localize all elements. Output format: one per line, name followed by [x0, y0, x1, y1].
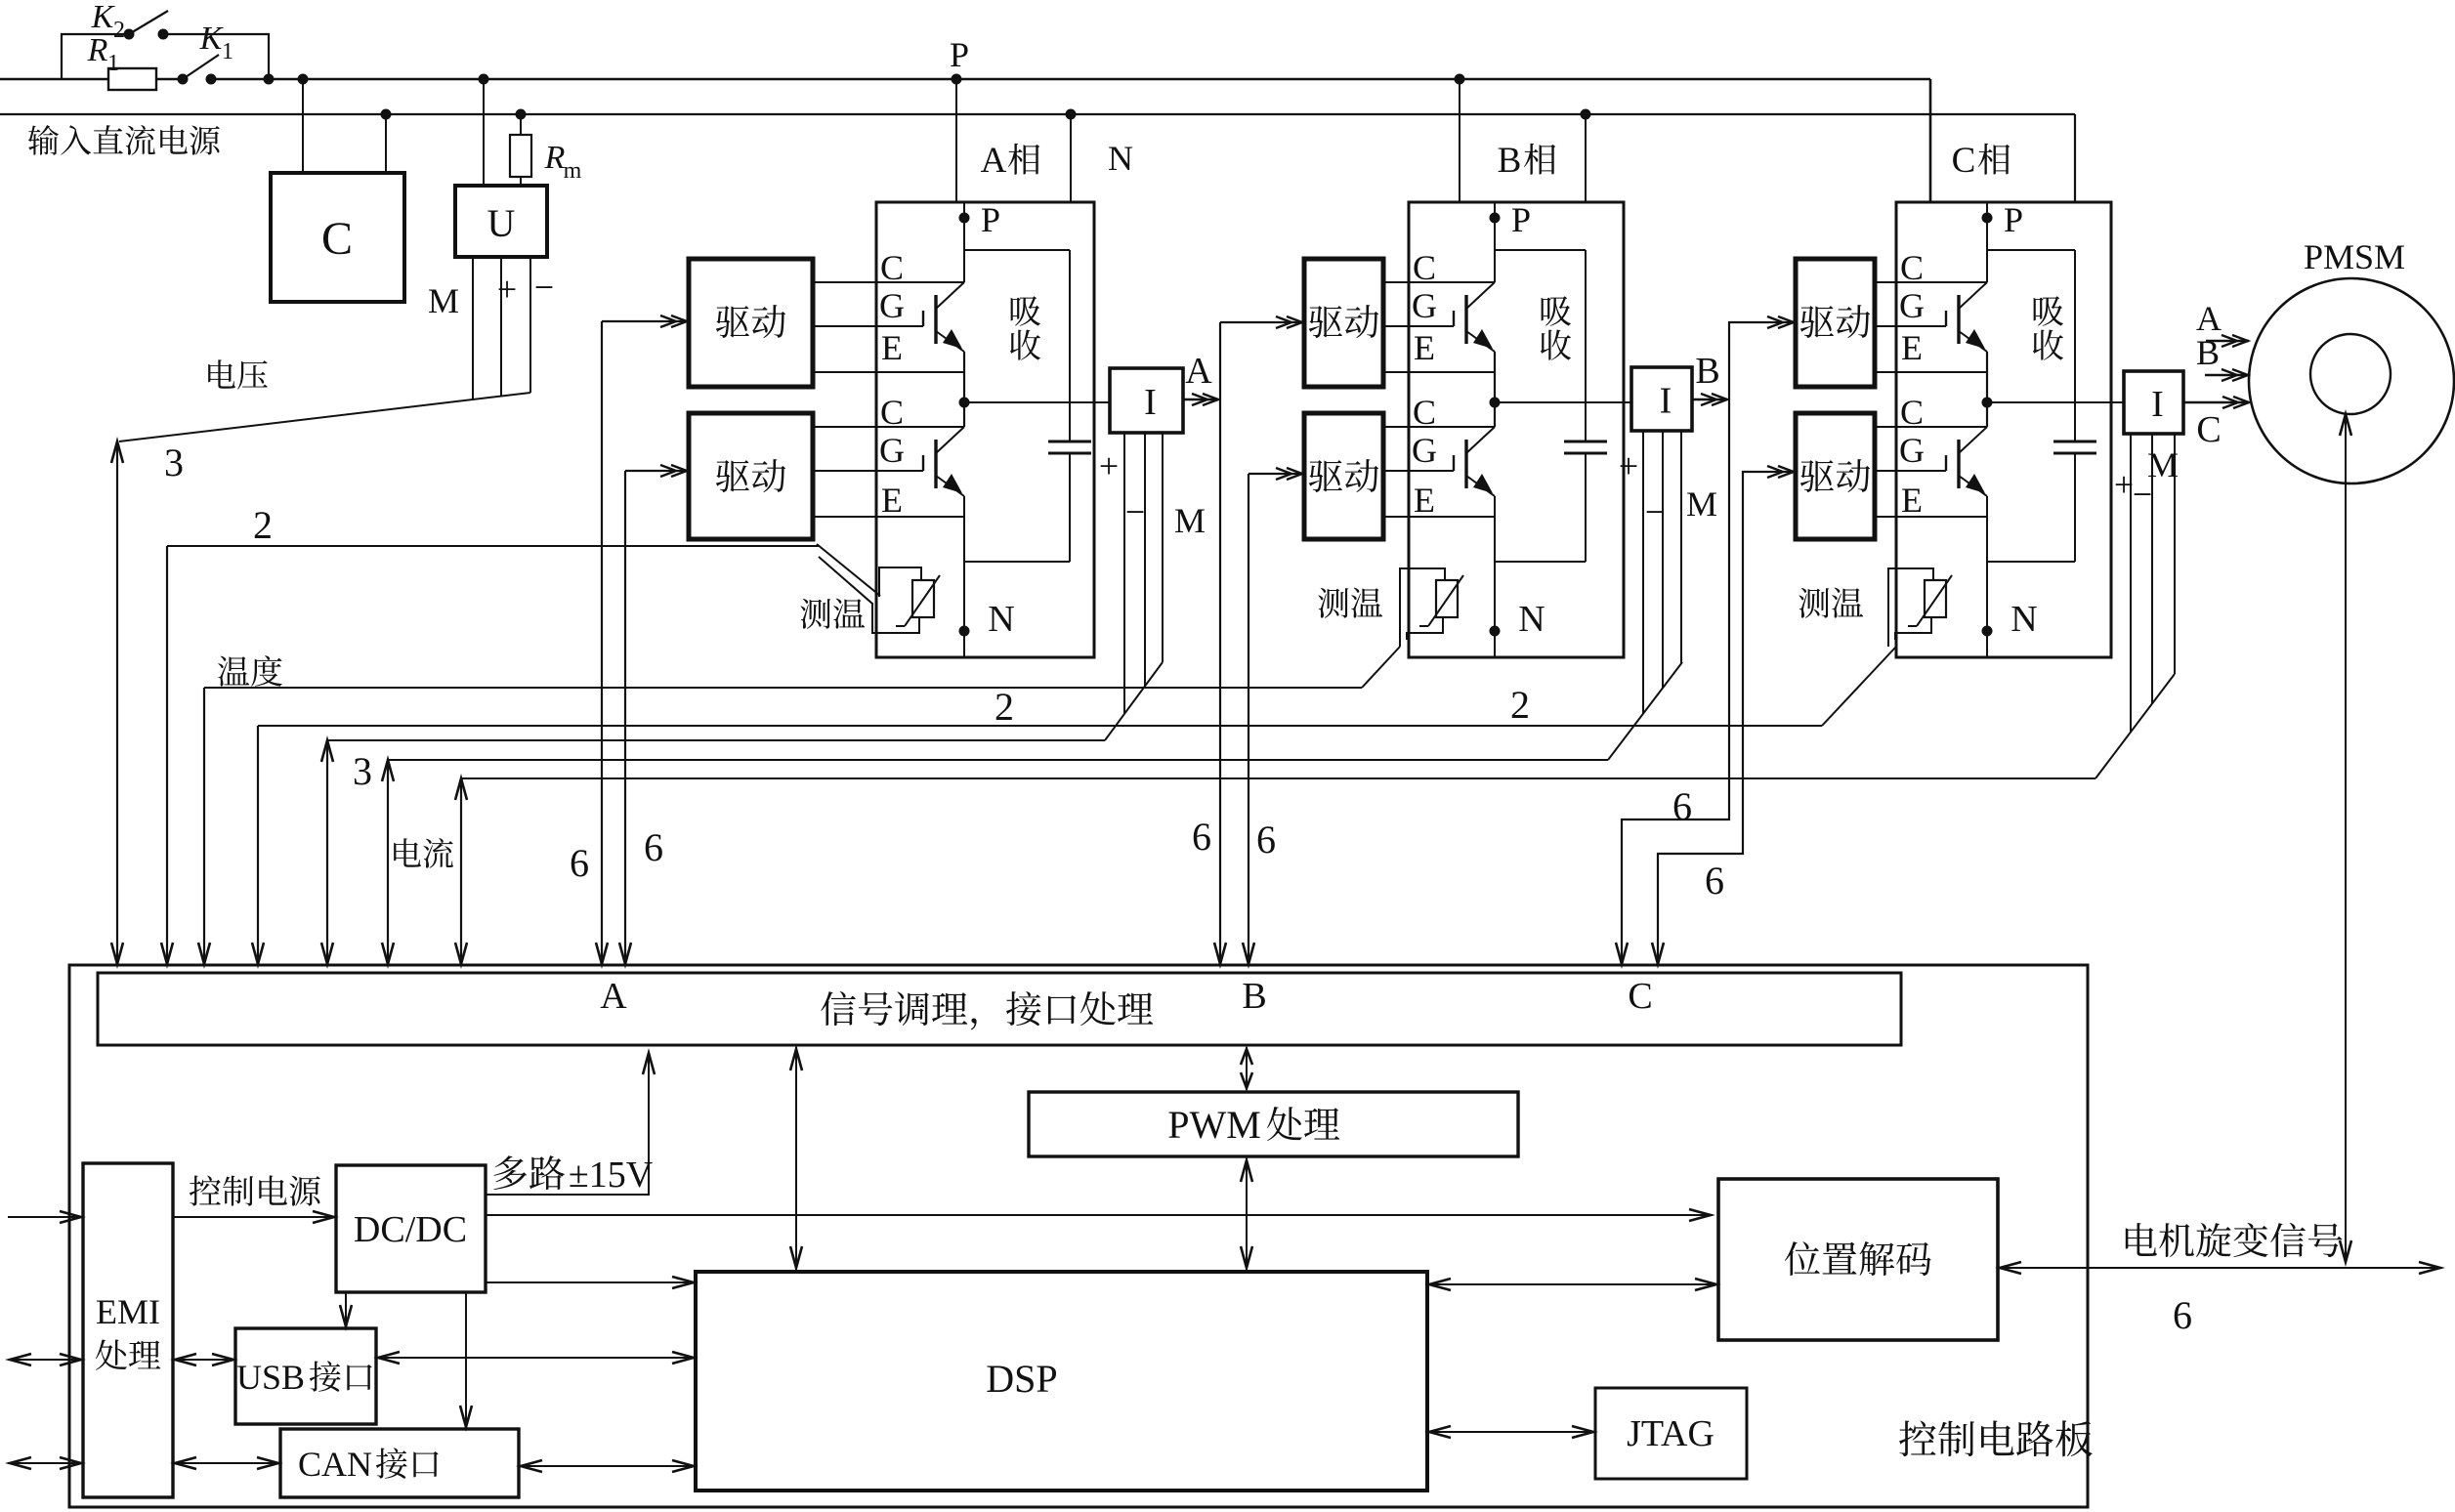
svg-text:E: E [1901, 481, 1923, 520]
svg-text:A: A [981, 141, 1007, 181]
svg-text:2: 2 [113, 18, 125, 43]
svg-text:A: A [1185, 351, 1212, 392]
svg-text:U: U [487, 201, 516, 245]
svg-text:P: P [1511, 200, 1531, 239]
svg-text:C: C [1413, 393, 1436, 432]
svg-text:6: 6 [1672, 784, 1692, 828]
svg-text:C: C [880, 248, 904, 287]
svg-text:6: 6 [1705, 859, 1724, 903]
svg-text:K: K [199, 21, 225, 57]
svg-text:B: B [2196, 333, 2220, 372]
svg-text:3: 3 [353, 749, 372, 793]
svg-text:K: K [91, 0, 116, 35]
svg-text:A: A [2196, 299, 2222, 338]
svg-text:B: B [1695, 351, 1719, 392]
svg-text:I: I [1660, 381, 1672, 422]
svg-text:6: 6 [644, 825, 663, 869]
svg-text:2: 2 [253, 503, 273, 547]
svg-text:+: + [497, 270, 517, 309]
svg-text:C: C [321, 213, 353, 265]
svg-text:P: P [2004, 200, 2023, 239]
svg-text:C: C [1628, 976, 1652, 1017]
svg-text:USB: USB [236, 1358, 305, 1397]
svg-text:N: N [2011, 599, 2037, 640]
svg-text:+: + [1099, 446, 1119, 485]
svg-text:C: C [880, 393, 904, 432]
svg-text:1: 1 [107, 51, 119, 76]
svg-text:EMI: EMI [96, 1292, 160, 1331]
svg-text:M: M [1174, 501, 1206, 540]
svg-text:C: C [1952, 141, 1976, 181]
svg-text:6: 6 [1192, 815, 1211, 859]
svg-text:PWM: PWM [1167, 1103, 1261, 1147]
svg-text:6: 6 [1256, 818, 1276, 861]
svg-text:6: 6 [570, 841, 589, 885]
svg-text:−: − [1125, 492, 1145, 531]
svg-text:DC/DC: DC/DC [354, 1209, 467, 1250]
svg-text:B: B [1498, 141, 1522, 181]
svg-text:C: C [2196, 409, 2221, 450]
svg-text:CAN: CAN [298, 1445, 372, 1484]
svg-text:E: E [1414, 481, 1435, 520]
svg-text:B: B [1242, 976, 1266, 1017]
svg-text:3: 3 [164, 441, 184, 484]
svg-text:E: E [1414, 328, 1435, 367]
svg-text:I: I [1144, 382, 1157, 423]
svg-text:R: R [544, 140, 566, 176]
svg-text:+: + [1619, 446, 1638, 485]
svg-text:E: E [881, 481, 903, 520]
svg-text:G: G [879, 431, 905, 470]
svg-text:M: M [2147, 445, 2179, 484]
svg-text:N: N [1518, 599, 1545, 640]
svg-text:M: M [1686, 484, 1717, 524]
svg-text:R: R [87, 32, 108, 68]
svg-text:m: m [564, 158, 582, 184]
svg-text:E: E [881, 328, 903, 367]
svg-text:C: C [1413, 248, 1436, 287]
svg-text:G: G [1899, 286, 1925, 325]
svg-text:DSP: DSP [986, 1357, 1057, 1401]
svg-text:PMSM: PMSM [2304, 237, 2405, 276]
svg-text:−: − [534, 268, 554, 307]
svg-text:A: A [600, 976, 627, 1017]
svg-text:1: 1 [222, 39, 233, 64]
svg-text:G: G [879, 286, 905, 325]
svg-text:P: P [981, 200, 1000, 239]
svg-text:±15V: ±15V [569, 1155, 654, 1196]
svg-text:N: N [988, 599, 1014, 640]
svg-text:2: 2 [1510, 683, 1530, 727]
svg-text:+: + [2114, 465, 2134, 504]
svg-text:C: C [1900, 393, 1924, 432]
svg-text:6: 6 [2173, 1293, 2192, 1337]
svg-text:E: E [1901, 328, 1923, 367]
svg-text:I: I [2151, 384, 2164, 425]
svg-text:P: P [950, 35, 969, 74]
svg-text:C: C [1900, 248, 1924, 287]
svg-text:G: G [1412, 431, 1437, 470]
svg-text:−: − [1645, 492, 1665, 531]
svg-text:2: 2 [995, 685, 1014, 729]
svg-text:G: G [1899, 431, 1925, 470]
svg-text:N: N [1108, 139, 1133, 178]
svg-text:M: M [428, 281, 459, 320]
svg-text:G: G [1412, 286, 1437, 325]
svg-text:JTAG: JTAG [1627, 1413, 1714, 1454]
